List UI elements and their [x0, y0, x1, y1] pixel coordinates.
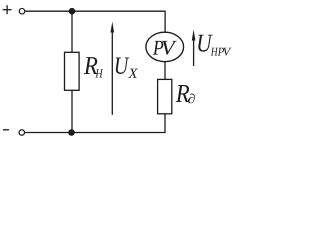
solar cell PV: [146, 32, 184, 62]
wire left branch upper: [71, 11, 73, 52]
wire top horizontal: [25, 10, 165, 12]
wire right branch top corner: [164, 11, 166, 33]
label Rd: [176, 85, 195, 103]
voltage arrow UX: [111, 22, 115, 115]
label UHPV: [198, 35, 231, 56]
label UX: [116, 57, 138, 78]
node junction bottom: [68, 129, 75, 136]
node junction top: [69, 8, 76, 15]
wire PV to Rd: [164, 61, 166, 79]
resistor RH: [65, 52, 80, 90]
resistor Rd: [158, 79, 172, 113]
minus polarity label: [3, 129, 9, 131]
wire right branch lower: [164, 114, 166, 133]
plus polarity label: [3, 5, 12, 14]
label RH: [84, 57, 103, 77]
wire bottom horizontal: [25, 132, 166, 134]
terminal node +: [19, 8, 25, 14]
wire left branch lower: [71, 90, 73, 132]
terminal node -: [19, 130, 25, 136]
voltage arrow UHPV: [192, 30, 196, 67]
label PV: [153, 41, 177, 55]
